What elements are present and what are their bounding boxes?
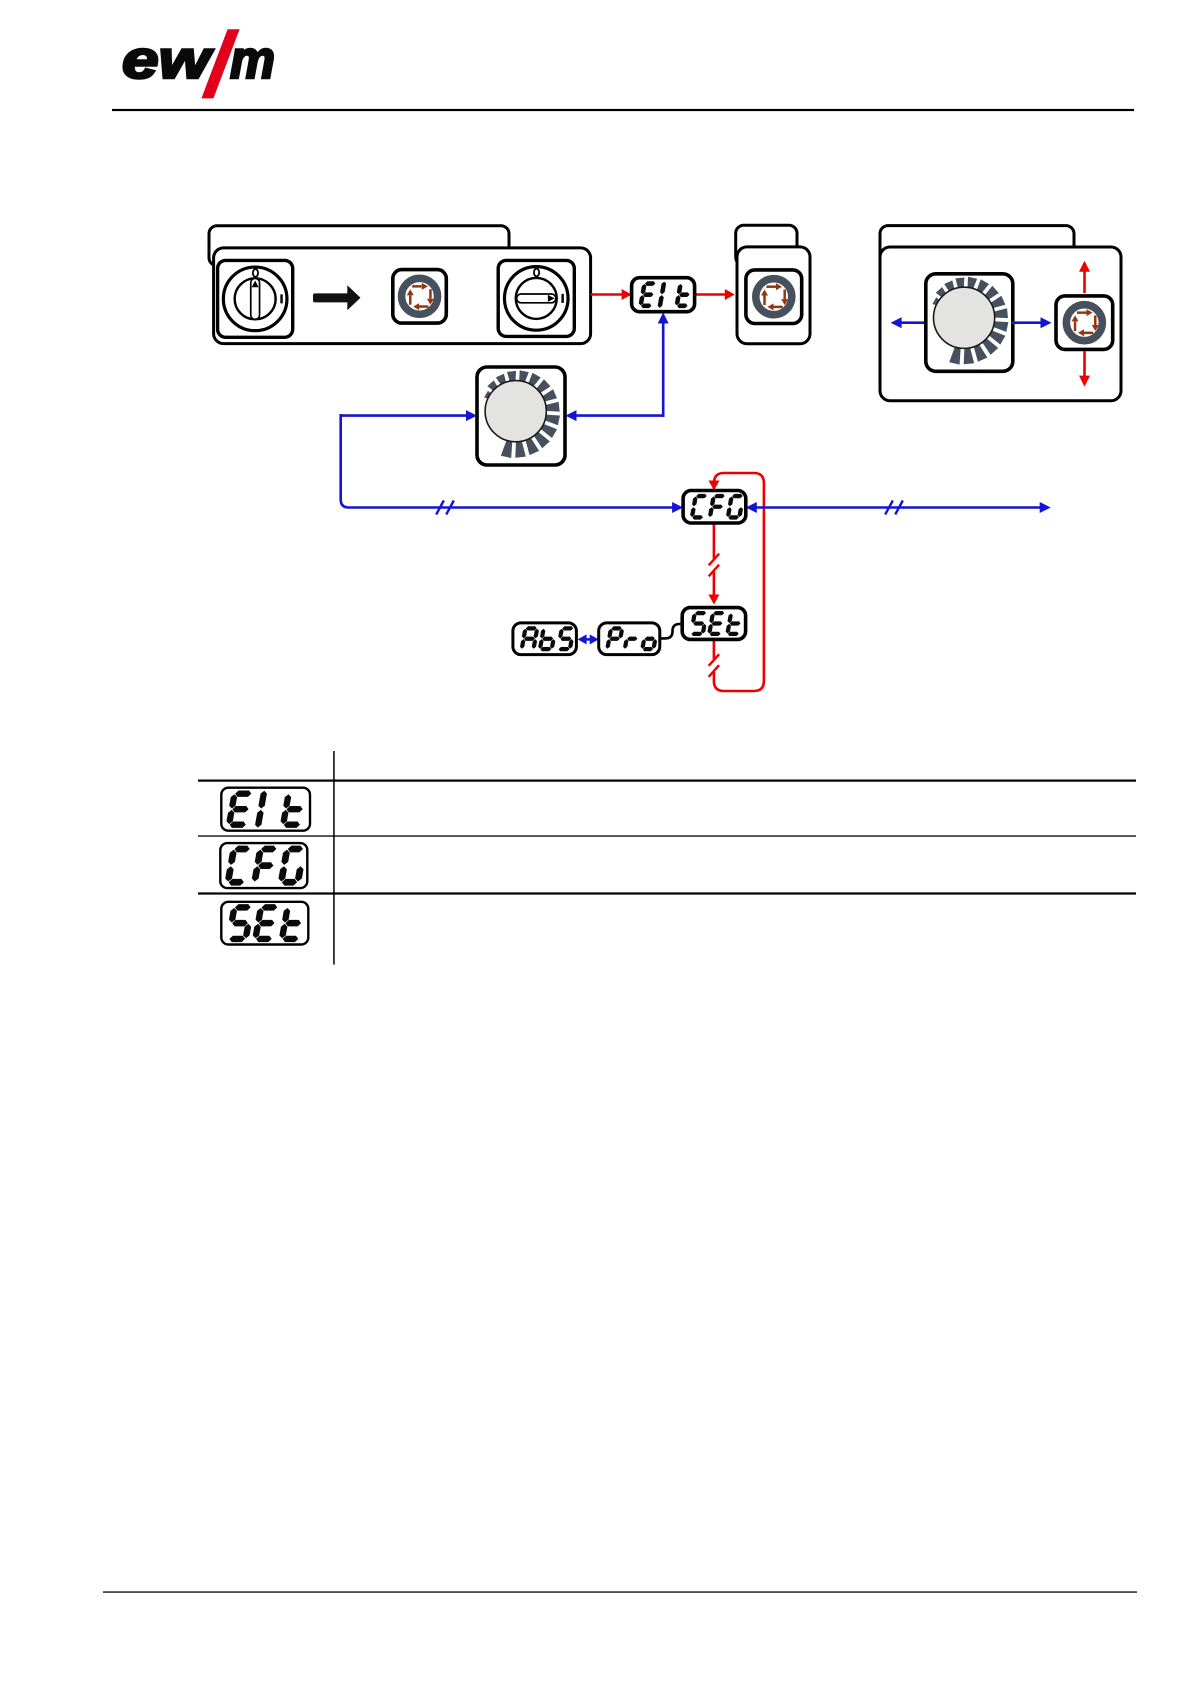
svg-text:ew: ew: [122, 30, 214, 90]
svg-text:m: m: [230, 30, 275, 90]
